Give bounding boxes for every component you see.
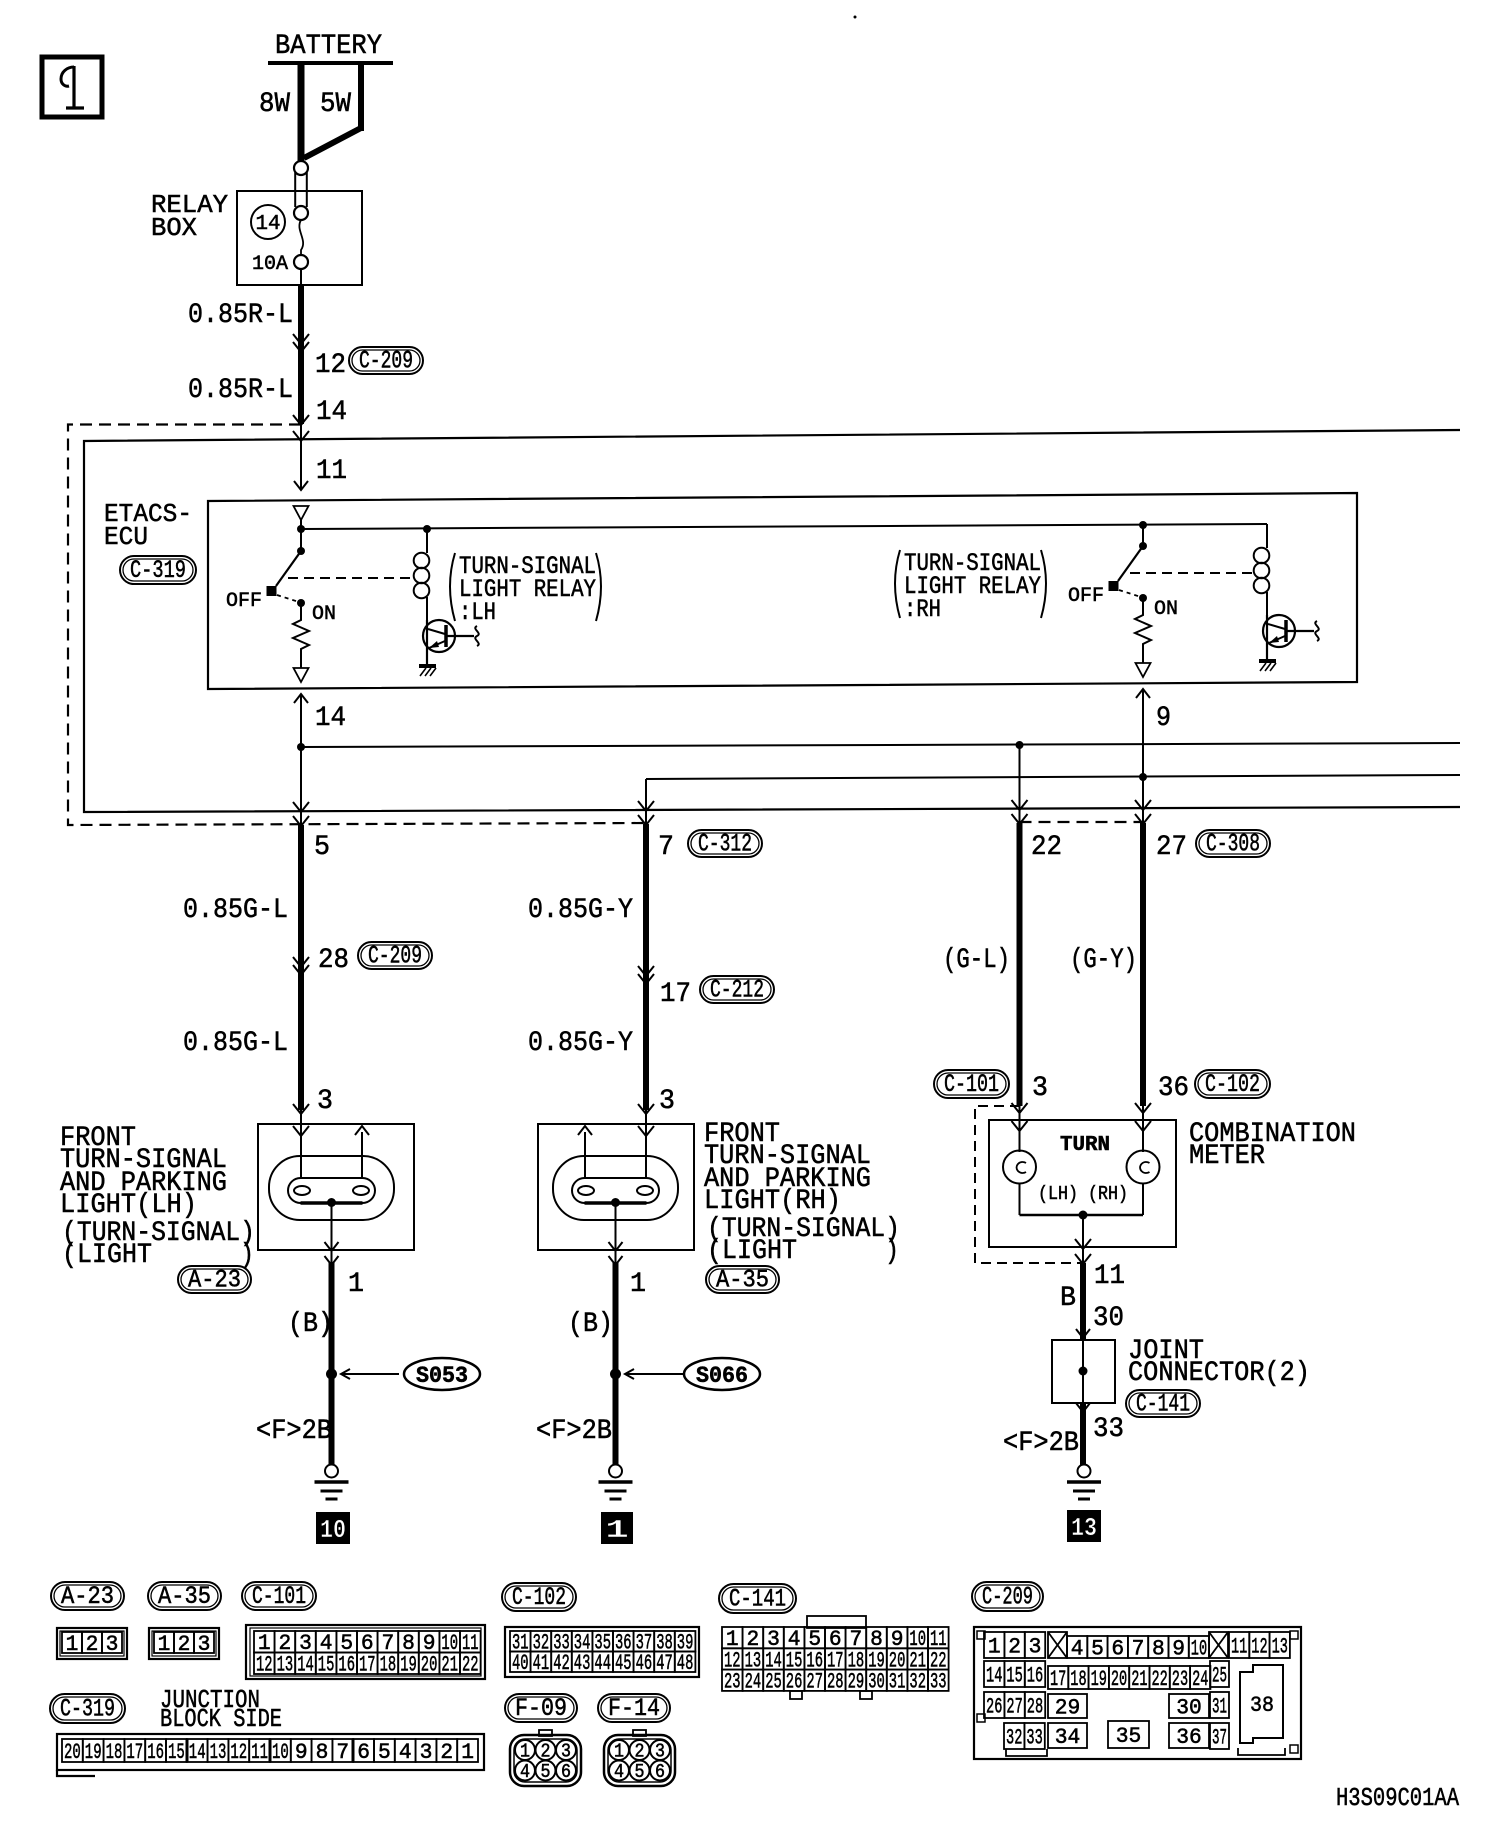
C-101 dashed connector boundary bbox=[975, 1106, 1083, 1263]
connector C-102 pinout bbox=[505, 1627, 699, 1677]
svg-text:18: 18 bbox=[106, 1740, 123, 1765]
connector label C-102 bottom bbox=[502, 1583, 576, 1612]
svg-text:3: 3 bbox=[1029, 1634, 1042, 1659]
connector label C-102 (pin 36) bbox=[1195, 1070, 1270, 1099]
svg-text:19: 19 bbox=[400, 1653, 417, 1678]
connector label C-209 (pin 12) bbox=[349, 347, 423, 376]
RH (F)2B ground lead bbox=[536, 1416, 612, 1447]
svg-text:A-23: A-23 bbox=[61, 1582, 114, 1611]
svg-text:C-212: C-212 bbox=[710, 976, 764, 1005]
svg-text:18: 18 bbox=[1070, 1667, 1086, 1692]
svg-text:CONNECTOR(2): CONNECTOR(2) bbox=[1128, 1358, 1310, 1389]
svg-text:37: 37 bbox=[1212, 1725, 1227, 1750]
svg-text:30: 30 bbox=[1093, 1303, 1124, 1334]
connector C-141 pinout bbox=[722, 1616, 949, 1699]
svg-text:20: 20 bbox=[64, 1740, 81, 1765]
svg-text:BLOCK SIDE: BLOCK SIDE bbox=[160, 1704, 282, 1734]
page ref 10 bbox=[316, 1512, 350, 1545]
svg-text:12: 12 bbox=[315, 350, 346, 381]
svg-text:2: 2 bbox=[178, 1632, 191, 1657]
svg-text:24: 24 bbox=[1192, 1667, 1208, 1692]
svg-text:26: 26 bbox=[986, 1694, 1002, 1719]
svg-text:13: 13 bbox=[1071, 1513, 1097, 1543]
svg-text:29: 29 bbox=[1055, 1695, 1081, 1720]
ETACS-ECU box bbox=[104, 493, 1357, 689]
svg-text:27: 27 bbox=[1156, 832, 1187, 863]
svg-text:40: 40 bbox=[512, 1651, 529, 1676]
svg-text:10: 10 bbox=[272, 1740, 289, 1765]
RH lamp bulb bbox=[553, 1124, 678, 1265]
svg-text:17: 17 bbox=[126, 1740, 143, 1765]
meter (LH) (RH) labels bbox=[1038, 1183, 1128, 1205]
svg-text:A-35: A-35 bbox=[716, 1266, 769, 1295]
svg-text:1: 1 bbox=[630, 1269, 646, 1300]
svg-text:(LH) (RH): (LH) (RH) bbox=[1038, 1183, 1128, 1205]
svg-text:10: 10 bbox=[1191, 1636, 1207, 1661]
LH (F)2B ground lead bbox=[256, 1416, 332, 1447]
connector label F-09 bbox=[505, 1694, 577, 1723]
svg-text:36: 36 bbox=[1158, 1073, 1189, 1104]
svg-text:4: 4 bbox=[1071, 1636, 1084, 1661]
internal ground RH bbox=[1259, 661, 1276, 671]
ECU pin 9 wire bbox=[1136, 689, 1171, 777]
svg-text:25: 25 bbox=[1212, 1663, 1227, 1688]
svg-text:C-141: C-141 bbox=[729, 1585, 786, 1614]
svg-text:H3S09C01AA: H3S09C01AA bbox=[1336, 1783, 1459, 1813]
svg-text:A-23: A-23 bbox=[188, 1266, 241, 1295]
svg-text:15: 15 bbox=[318, 1653, 335, 1678]
connector C-101 pinout bbox=[246, 1625, 485, 1679]
svg-text:C-101: C-101 bbox=[944, 1070, 999, 1099]
svg-text:C-308: C-308 bbox=[1206, 830, 1260, 859]
svg-text:(LIGHT: (LIGHT bbox=[62, 1240, 152, 1271]
svg-text:28: 28 bbox=[1027, 1694, 1043, 1719]
svg-text:BOX: BOX bbox=[151, 213, 197, 243]
svg-text:14: 14 bbox=[297, 1653, 314, 1678]
svg-text:2: 2 bbox=[541, 1741, 551, 1763]
svg-text:C-102: C-102 bbox=[512, 1583, 566, 1612]
svg-text:0.85R-L: 0.85R-L bbox=[188, 300, 293, 331]
battery bus bar bbox=[268, 61, 393, 65]
svg-text:2: 2 bbox=[86, 1632, 99, 1657]
svg-text:18: 18 bbox=[380, 1653, 397, 1678]
svg-text:19: 19 bbox=[85, 1740, 102, 1765]
svg-text:25: 25 bbox=[765, 1670, 782, 1695]
svg-text:1: 1 bbox=[348, 1269, 364, 1300]
relay LH coil bbox=[414, 529, 430, 620]
connector label C-319 bbox=[120, 556, 196, 585]
wire 0.85G-Y lower + pin 3 bbox=[528, 1028, 675, 1124]
page ref 13 bbox=[1067, 1510, 1101, 1543]
svg-text:35: 35 bbox=[1116, 1724, 1142, 1749]
svg-text:23: 23 bbox=[1172, 1667, 1188, 1692]
wire 0.85R-L from fuse bbox=[188, 269, 346, 424]
splice S053 bbox=[326, 1358, 480, 1390]
svg-text:1: 1 bbox=[66, 1632, 79, 1657]
svg-text:4: 4 bbox=[614, 1761, 624, 1783]
svg-text:1: 1 bbox=[461, 1740, 474, 1765]
svg-text:OFF: OFF bbox=[1068, 585, 1104, 608]
front turn-signal and parking light LH box bbox=[258, 1124, 414, 1250]
bus line 2 bbox=[646, 773, 1460, 781]
svg-text:5: 5 bbox=[541, 1761, 551, 1783]
svg-text:6: 6 bbox=[357, 1740, 370, 1765]
svg-text:7: 7 bbox=[658, 832, 674, 863]
svg-text:<F>2B: <F>2B bbox=[1003, 1428, 1079, 1459]
svg-text:17: 17 bbox=[359, 1653, 376, 1678]
svg-text:34: 34 bbox=[1055, 1725, 1081, 1750]
ECU pin 14 wire bbox=[294, 694, 346, 747]
svg-text:(B): (B) bbox=[568, 1309, 613, 1340]
svg-text:LIGHT(RH): LIGHT(RH) bbox=[704, 1186, 841, 1217]
svg-text:28: 28 bbox=[827, 1670, 844, 1695]
connector label C-319 bbox=[50, 1694, 125, 1724]
svg-text:31: 31 bbox=[1212, 1694, 1227, 1719]
relay RH coil drive dashed link bbox=[1130, 572, 1254, 574]
LH lamp ground wire (B) bbox=[288, 1262, 364, 1465]
svg-text:33: 33 bbox=[930, 1670, 947, 1695]
svg-text:4: 4 bbox=[399, 1740, 412, 1765]
svg-text:ON: ON bbox=[312, 603, 336, 626]
svg-text::LH: :LH bbox=[459, 598, 496, 627]
svg-text:9: 9 bbox=[1156, 703, 1171, 734]
wire pin27 / (G-Y) to combination meter bbox=[1070, 777, 1189, 1106]
connector label A-23 bottom bbox=[51, 1582, 124, 1611]
svg-text:F-09: F-09 bbox=[515, 1694, 567, 1723]
svg-text:3: 3 bbox=[106, 1632, 119, 1657]
svg-text::RH: :RH bbox=[904, 595, 941, 624]
svg-text:9: 9 bbox=[1172, 1636, 1185, 1661]
svg-text:METER: METER bbox=[1189, 1141, 1265, 1172]
wire 0.85G-L lower + pin 3 bbox=[183, 1028, 333, 1124]
svg-text:23: 23 bbox=[724, 1670, 741, 1695]
svg-text:15: 15 bbox=[1006, 1663, 1022, 1688]
wire B pin 11 to 30 bbox=[1060, 1261, 1125, 1340]
page number box 1 bbox=[42, 57, 102, 117]
connector C-319 pinout bbox=[57, 1734, 484, 1776]
svg-text:(G-Y): (G-Y) bbox=[1070, 945, 1137, 976]
svg-text:C-209: C-209 bbox=[368, 942, 422, 971]
meter TURN label bbox=[1060, 1134, 1110, 1157]
svg-text:5: 5 bbox=[635, 1761, 645, 1783]
svg-text:OFF: OFF bbox=[226, 590, 262, 613]
svg-text:7: 7 bbox=[1132, 1636, 1145, 1661]
battery label bbox=[275, 31, 382, 62]
svg-text:0.85G-Y: 0.85G-Y bbox=[528, 895, 633, 926]
connector label C-101 bottom bbox=[242, 1582, 316, 1611]
resistor in RH relay bbox=[1135, 598, 1151, 663]
svg-text:BATTERY: BATTERY bbox=[275, 31, 382, 62]
svg-text:20: 20 bbox=[421, 1653, 438, 1678]
fuse 14 10A bbox=[251, 161, 308, 276]
svg-text:5W: 5W bbox=[320, 89, 351, 120]
wire pin22 / (G-L) to combination meter bbox=[943, 745, 1062, 1106]
svg-text:14: 14 bbox=[189, 1740, 206, 1765]
svg-text:16: 16 bbox=[1027, 1663, 1043, 1688]
svg-text:12: 12 bbox=[230, 1740, 247, 1765]
svg-text:A-35: A-35 bbox=[158, 1582, 211, 1611]
internal ground LH bbox=[419, 666, 436, 676]
transistor LH bbox=[423, 620, 479, 666]
turn-signal relay RH switch bbox=[1068, 524, 1178, 621]
svg-text:36: 36 bbox=[1176, 1725, 1202, 1750]
connector label C-141 bbox=[1126, 1390, 1200, 1419]
turn-signal light relay LH label bbox=[450, 552, 601, 627]
svg-text:C-141: C-141 bbox=[1136, 1390, 1190, 1419]
svg-text:12: 12 bbox=[256, 1653, 273, 1678]
bus line 1 bbox=[297, 741, 1460, 751]
relay RH coil bbox=[1254, 524, 1270, 615]
relay LH coil drive dashed link bbox=[288, 577, 414, 579]
svg-text:27: 27 bbox=[806, 1670, 823, 1695]
svg-text:47: 47 bbox=[656, 1651, 673, 1676]
wire 33 to ground bbox=[1003, 1403, 1124, 1465]
front turn-signal and parking light RH box bbox=[538, 1124, 694, 1250]
svg-text:15: 15 bbox=[168, 1740, 185, 1765]
svg-text:8: 8 bbox=[1152, 1636, 1165, 1661]
junction block solid boundary bbox=[84, 430, 1460, 812]
ground LH bbox=[315, 1465, 349, 1500]
svg-text:0.85G-Y: 0.85G-Y bbox=[528, 1028, 633, 1059]
svg-text:33: 33 bbox=[1026, 1725, 1042, 1750]
svg-text:B: B bbox=[1060, 1283, 1076, 1314]
relay box bbox=[151, 190, 362, 285]
wire 0.85R-L lower bbox=[188, 375, 347, 428]
svg-text:20: 20 bbox=[1111, 1667, 1127, 1692]
combination meter box bbox=[989, 1119, 1356, 1247]
svg-text:1: 1 bbox=[158, 1632, 171, 1657]
svg-text:17: 17 bbox=[1050, 1667, 1066, 1692]
svg-text:1: 1 bbox=[520, 1741, 530, 1763]
svg-text:<F>2B: <F>2B bbox=[536, 1416, 612, 1447]
svg-text:2: 2 bbox=[635, 1741, 645, 1763]
svg-text:C-101: C-101 bbox=[252, 1582, 306, 1611]
svg-text:1: 1 bbox=[988, 1634, 1001, 1659]
svg-text:21: 21 bbox=[441, 1653, 458, 1678]
svg-text:17: 17 bbox=[660, 979, 691, 1010]
RH lamp label bbox=[704, 1119, 900, 1267]
svg-text:38: 38 bbox=[1250, 1693, 1274, 1718]
connector F-09 pinout bbox=[510, 1730, 581, 1786]
svg-text:22: 22 bbox=[1152, 1667, 1168, 1692]
connector label C-141 bottom bbox=[719, 1584, 796, 1614]
connector A-35 pinout bbox=[149, 1628, 219, 1659]
svg-text:S053: S053 bbox=[416, 1363, 468, 1389]
turn-signal light relay RH label bbox=[895, 549, 1046, 624]
svg-text:28: 28 bbox=[318, 945, 349, 976]
meter RH indicator bulb bbox=[1127, 1103, 1160, 1215]
svg-text:S066: S066 bbox=[696, 1363, 748, 1389]
svg-text:10: 10 bbox=[320, 1515, 346, 1545]
connector label A-23 bbox=[178, 1266, 251, 1295]
svg-text:16: 16 bbox=[338, 1653, 355, 1678]
svg-text:C-319: C-319 bbox=[130, 556, 186, 585]
svg-text:30: 30 bbox=[1176, 1695, 1202, 1720]
svg-text:31: 31 bbox=[889, 1670, 906, 1695]
svg-text:9: 9 bbox=[295, 1740, 308, 1765]
svg-text:11: 11 bbox=[316, 456, 347, 487]
svg-text:(LIGHT: (LIGHT bbox=[707, 1236, 797, 1267]
svg-text:(G-L): (G-L) bbox=[943, 945, 1010, 976]
svg-text:(B): (B) bbox=[288, 1309, 333, 1340]
svg-text:41: 41 bbox=[533, 1651, 550, 1676]
wire 0.85G-Y labels bbox=[528, 895, 691, 1010]
svg-text:4: 4 bbox=[520, 1761, 530, 1783]
svg-text:19: 19 bbox=[1091, 1667, 1107, 1692]
svg-text:11: 11 bbox=[251, 1740, 268, 1765]
junction block side label bbox=[160, 1685, 282, 1734]
LH lamp label bbox=[60, 1123, 255, 1271]
svg-text:24: 24 bbox=[745, 1670, 762, 1695]
battery feed wire 8W bbox=[259, 63, 301, 162]
svg-text:6: 6 bbox=[561, 1761, 571, 1783]
svg-text:): ) bbox=[885, 1236, 899, 1267]
svg-text:3: 3 bbox=[659, 1086, 675, 1117]
svg-text:3: 3 bbox=[420, 1740, 433, 1765]
svg-text:2: 2 bbox=[440, 1740, 453, 1765]
svg-text:5: 5 bbox=[1091, 1636, 1104, 1661]
svg-text:14: 14 bbox=[256, 213, 281, 236]
svg-text:21: 21 bbox=[1131, 1667, 1147, 1692]
ECU pin triangle (pin 9) bbox=[1136, 663, 1151, 677]
LH lamp bulb bbox=[269, 1124, 394, 1265]
svg-text:7: 7 bbox=[336, 1740, 349, 1765]
svg-text:6: 6 bbox=[1111, 1636, 1124, 1661]
svg-text:LIGHT(LH): LIGHT(LH) bbox=[60, 1190, 197, 1221]
svg-text:32: 32 bbox=[1006, 1725, 1022, 1750]
svg-text:8: 8 bbox=[316, 1740, 329, 1765]
RH lamp ground wire (B) bbox=[568, 1262, 646, 1465]
drawing number bbox=[1336, 1783, 1459, 1813]
svg-text:13: 13 bbox=[277, 1653, 294, 1678]
connector label C-101 (pin 3) bbox=[934, 1070, 1009, 1099]
connector label C-312 bbox=[688, 830, 762, 859]
svg-text:3: 3 bbox=[561, 1741, 571, 1763]
svg-text:27: 27 bbox=[1006, 1694, 1022, 1719]
svg-text:<F>2B: <F>2B bbox=[256, 1416, 332, 1447]
splice S066 bbox=[610, 1358, 760, 1390]
svg-text:3: 3 bbox=[655, 1741, 665, 1763]
connector F-14 pinout bbox=[604, 1730, 675, 1786]
ETACS-ECU dashed boundary bbox=[68, 425, 1143, 826]
svg-text:6: 6 bbox=[655, 1761, 665, 1783]
svg-text:1: 1 bbox=[605, 1515, 629, 1545]
ground RH bbox=[599, 1465, 633, 1500]
connector C-209 pinout bbox=[974, 1627, 1301, 1759]
svg-text:C-209: C-209 bbox=[982, 1583, 1033, 1612]
svg-text:43: 43 bbox=[574, 1651, 591, 1676]
svg-text:0.85G-L: 0.85G-L bbox=[183, 895, 288, 926]
connector label C-212 bbox=[700, 976, 774, 1005]
meter LH indicator bulb bbox=[1003, 1103, 1036, 1215]
connector label F-14 bbox=[598, 1694, 670, 1723]
svg-text:14: 14 bbox=[315, 703, 346, 734]
connector label A-35 bottom bbox=[148, 1582, 221, 1611]
wire pin7 / 0.85G-Y to RH lamp bbox=[638, 779, 674, 1110]
svg-text:45: 45 bbox=[615, 1651, 632, 1676]
svg-text:3: 3 bbox=[317, 1086, 333, 1117]
svg-text:5: 5 bbox=[314, 832, 330, 863]
svg-text:22: 22 bbox=[1031, 832, 1062, 863]
connector label C-209 (pin 28) bbox=[358, 942, 432, 971]
svg-text:TURN: TURN bbox=[1060, 1134, 1110, 1157]
svg-text:5: 5 bbox=[378, 1740, 391, 1765]
battery feed wire 5W bbox=[304, 63, 361, 158]
svg-text:11: 11 bbox=[1231, 1634, 1247, 1659]
svg-text:48: 48 bbox=[677, 1651, 694, 1676]
connector label C-209 bottom bbox=[972, 1582, 1043, 1612]
svg-text:C-209: C-209 bbox=[359, 347, 413, 376]
meter common return bbox=[1020, 1211, 1144, 1265]
svg-text:10A: 10A bbox=[252, 253, 288, 276]
turn-signal relay LH switch bbox=[226, 529, 336, 626]
stray dot top bbox=[854, 16, 857, 19]
svg-text:33: 33 bbox=[1093, 1414, 1124, 1445]
connector label A-35 bbox=[706, 1266, 779, 1295]
ECU pin triangle (pin 14) bbox=[294, 668, 309, 682]
svg-text:3: 3 bbox=[1032, 1073, 1048, 1104]
svg-text:ECU: ECU bbox=[104, 522, 148, 552]
ground meter column bbox=[1067, 1465, 1101, 1500]
svg-text:32: 32 bbox=[909, 1670, 926, 1695]
page ref 1 bbox=[601, 1512, 633, 1545]
relay feed line inside ECU bbox=[297, 521, 1267, 533]
svg-text:C-312: C-312 bbox=[698, 830, 752, 859]
svg-text:0.85G-L: 0.85G-L bbox=[183, 1028, 288, 1059]
svg-text:13: 13 bbox=[1272, 1634, 1288, 1659]
svg-text:2: 2 bbox=[1008, 1634, 1021, 1659]
svg-text:1: 1 bbox=[614, 1741, 624, 1763]
svg-text:8W: 8W bbox=[259, 89, 290, 120]
transistor RH bbox=[1263, 615, 1319, 661]
svg-text:13: 13 bbox=[210, 1740, 227, 1765]
svg-text:44: 44 bbox=[594, 1651, 611, 1676]
svg-text:11: 11 bbox=[1094, 1261, 1125, 1292]
ECU pin triangle (pin 11) bbox=[294, 506, 309, 529]
svg-text:12: 12 bbox=[1251, 1634, 1267, 1659]
svg-text:14: 14 bbox=[986, 1663, 1002, 1688]
svg-text:14: 14 bbox=[316, 397, 347, 428]
svg-text:0.85R-L: 0.85R-L bbox=[188, 375, 293, 406]
svg-text:16: 16 bbox=[147, 1740, 164, 1765]
resistor in LH relay bbox=[293, 603, 309, 668]
svg-text:22: 22 bbox=[462, 1653, 479, 1678]
svg-text:C-102: C-102 bbox=[1205, 1070, 1260, 1099]
connector A-23 pinout bbox=[57, 1628, 127, 1659]
connector label C-308 bbox=[1196, 830, 1270, 859]
svg-text:ON: ON bbox=[1154, 598, 1178, 621]
svg-text:F-14: F-14 bbox=[608, 1694, 660, 1723]
svg-text:3: 3 bbox=[198, 1632, 211, 1657]
wire pin5 / 0.85G-L to LH lamp bbox=[183, 747, 349, 1110]
svg-text:46: 46 bbox=[636, 1651, 653, 1676]
svg-text:C-319: C-319 bbox=[60, 1695, 115, 1724]
pin 11 entering ECU bbox=[293, 415, 347, 490]
svg-text:42: 42 bbox=[553, 1651, 570, 1676]
joint connector (2) box bbox=[1052, 1336, 1310, 1403]
